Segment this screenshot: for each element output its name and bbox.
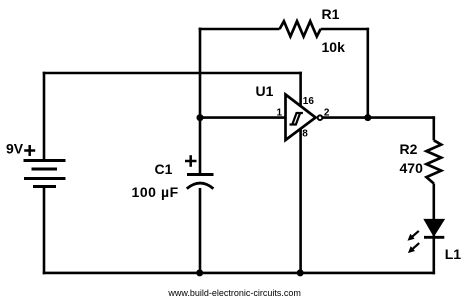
wire R1 right lead to output branch corner [321,28,370,31]
battery plus sign [24,145,35,156]
wire input pin1 horizontal from node A [200,116,286,119]
capacitor C1 plus sign [185,155,197,167]
reference label C1 [155,161,173,177]
value label 9V [6,140,24,156]
wire R2 top lead vertical [432,116,435,140]
value label 10k [322,39,346,55]
resistor R1 zigzag [280,21,321,36]
pin number 8 [302,129,308,140]
svg-text:16: 16 [303,96,315,107]
reference label R2 [400,141,418,157]
wire bottom ground rail [43,272,435,275]
junction node A (input/C1/R1) [197,114,204,121]
wire R1 branch vertical down to output node [366,28,369,118]
wire R1 left lead vertical at node A [199,28,280,31]
wire R2 bottom lead down through LED to ground rail [432,184,435,275]
svg-text:L1: L1 [445,246,462,262]
wire battery+ up left side [43,72,46,161]
pin number 16 [303,96,315,107]
LED L1 emission arrow 1 [408,231,419,241]
LED L1 emission arrow 2 [408,243,419,253]
LED L1 diode triangle [425,220,444,236]
pin number 1 [277,107,283,118]
svg-text:www.build-electronic-circuits.: www.build-electronic-circuits.com [167,288,301,298]
svg-text:9V: 9V [6,140,24,156]
junction output node (R1 branch) [364,114,371,121]
capacitor C1 top plate [187,173,214,176]
reference label L1 [445,246,462,262]
wire output pin2 horizontal to R2 corner [323,116,436,119]
wire pin 16 vertical drop [299,72,302,110]
wire node A vertical (R1 to C1 top, crossing top rail) [199,28,202,175]
reference label U1 [256,83,274,99]
svg-text:470: 470 [400,160,424,176]
op-amp U1 schmitt inverter triangle [286,95,316,141]
svg-text:8: 8 [302,129,308,140]
value label 100 uF [132,184,179,200]
junction C1 to ground rail [196,269,203,276]
svg-text:U1: U1 [256,83,274,99]
svg-text:2: 2 [324,108,330,119]
LED L1 cathode bar [424,236,444,239]
svg-text:1: 1 [277,107,283,118]
url watermark [167,288,301,298]
wire pin 8 vertical down to ground rail [299,124,302,273]
svg-text:R2: R2 [400,141,418,157]
resistor R2 zigzag [426,140,441,183]
svg-text:R1: R1 [322,6,340,22]
wire C1 bottom lead to ground rail [199,188,202,273]
wire battery- down left side [43,187,46,275]
U1 output inversion bubble [318,115,323,120]
svg-text:10k: 10k [322,39,346,55]
value label 470 [400,160,424,176]
capacitor C1 curved bottom plate [187,183,214,189]
pin number 2 [324,108,330,119]
U1 hysteresis symbol [290,113,303,125]
battery B1 9V plates [24,161,66,187]
svg-text:100 µF: 100 µF [132,184,179,200]
junction pin8 to ground rail [297,269,304,276]
svg-text:C1: C1 [155,161,173,177]
reference label R1 [322,6,340,22]
wire top rail from battery+ to pin16 drop [43,72,302,75]
